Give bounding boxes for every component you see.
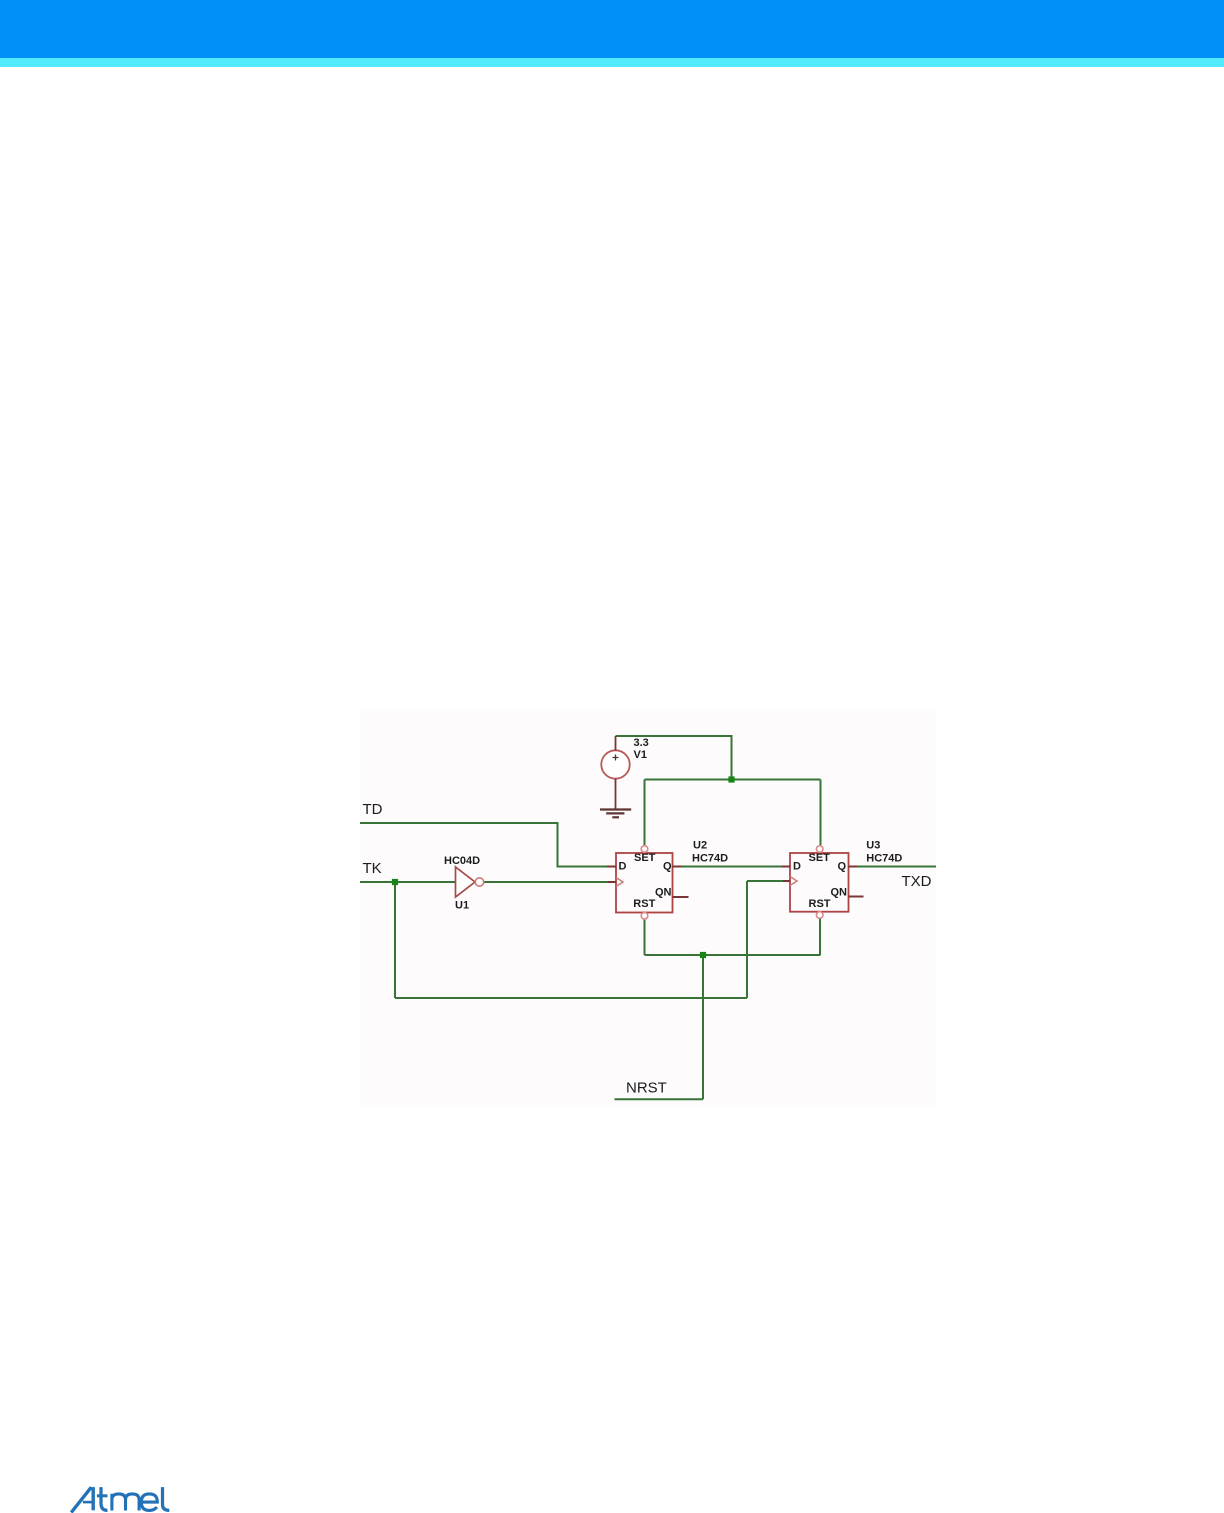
svg-text:V1: V1 (634, 749, 647, 761)
wire bottom horizontal feedback (395, 997, 747, 999)
wire SET drop U2 (644, 780, 646, 846)
schematic raster background (360, 709, 936, 1107)
svg-text:HC74D: HC74D (866, 853, 902, 865)
U2 QN stub (673, 896, 689, 898)
header blue bar (0, 0, 1224, 58)
U2 Q pin stub (673, 866, 682, 868)
inverter U1 bubble (475, 878, 483, 886)
junction at TK node (392, 879, 398, 885)
V1 bottom lead (615, 779, 617, 810)
svg-text:QN: QN (655, 887, 672, 899)
flip-flop U2 box (616, 853, 673, 913)
wire inverter output to U2 clock (484, 881, 616, 883)
U3 clock pin stub (783, 880, 790, 882)
U3 QN stub (849, 896, 864, 898)
ground symbol (600, 810, 631, 818)
wire NRST vertical (702, 955, 704, 1099)
voltage source V1 circle (601, 750, 629, 778)
U2 RST pin circle (641, 913, 648, 920)
junction at SET rail (728, 776, 734, 782)
wire TK to inverter input (360, 881, 456, 883)
V1 plus sign (613, 755, 619, 761)
header cyan strip (0, 58, 1224, 67)
wire NRST stub (615, 1098, 704, 1100)
U2 clock pin stub (608, 881, 616, 883)
svg-text:TXD: TXD (902, 873, 932, 890)
U2 SET pin circle (641, 846, 648, 853)
U2 D pin stub (607, 866, 616, 868)
svg-text:HC74D: HC74D (692, 853, 728, 865)
wire vertical up to U3 clock (746, 881, 748, 998)
U3 clock triangle (790, 877, 797, 886)
wire SET rail horizontal (645, 779, 821, 781)
svg-text:D: D (793, 861, 801, 873)
U3 RST pin circle (816, 912, 823, 919)
svg-text:RST: RST (633, 898, 655, 910)
svg-text:RST: RST (809, 898, 831, 910)
U3 SET pin circle (816, 846, 823, 853)
svg-text:TD: TD (363, 801, 383, 818)
wire SET drop U3 (820, 780, 822, 846)
wire U2 Q to U3 D (673, 866, 791, 868)
svg-text:HC04D: HC04D (444, 855, 480, 867)
svg-text:U1: U1 (455, 900, 469, 912)
svg-text:SET: SET (634, 852, 656, 864)
svg-text:U2: U2 (693, 840, 707, 852)
U3 D pin stub (782, 866, 790, 868)
svg-text:Q: Q (838, 861, 847, 873)
Atmel logo (68, 1485, 174, 1513)
wire to U3 clock pin (747, 880, 790, 882)
U3 Q pin stub (849, 866, 858, 868)
svg-text:U3: U3 (866, 840, 880, 852)
wire RST U2 drop (644, 919, 646, 955)
wire TD horizontal and down to D of U2 (360, 823, 616, 867)
svg-text:D: D (619, 861, 627, 873)
wire RST rail horizontal (645, 954, 821, 956)
wire V1 top to SET rail (616, 736, 732, 780)
U2 clock triangle (616, 878, 623, 887)
svg-text:QN: QN (831, 887, 848, 899)
svg-text:SET: SET (809, 852, 831, 864)
wire TK junction down (394, 882, 396, 998)
wire U3 Q output TXD (849, 866, 937, 868)
flip-flop U3 box (790, 853, 849, 912)
svg-text:3.3: 3.3 (634, 737, 649, 749)
V1 top lead (615, 736, 617, 751)
junction at NRST node (700, 952, 706, 958)
inverter U1 triangle (456, 867, 476, 897)
svg-text:Q: Q (663, 861, 672, 873)
svg-text:NRST: NRST (626, 1080, 667, 1097)
svg-text:TK: TK (363, 860, 382, 877)
wire RST U3 drop (819, 919, 821, 956)
